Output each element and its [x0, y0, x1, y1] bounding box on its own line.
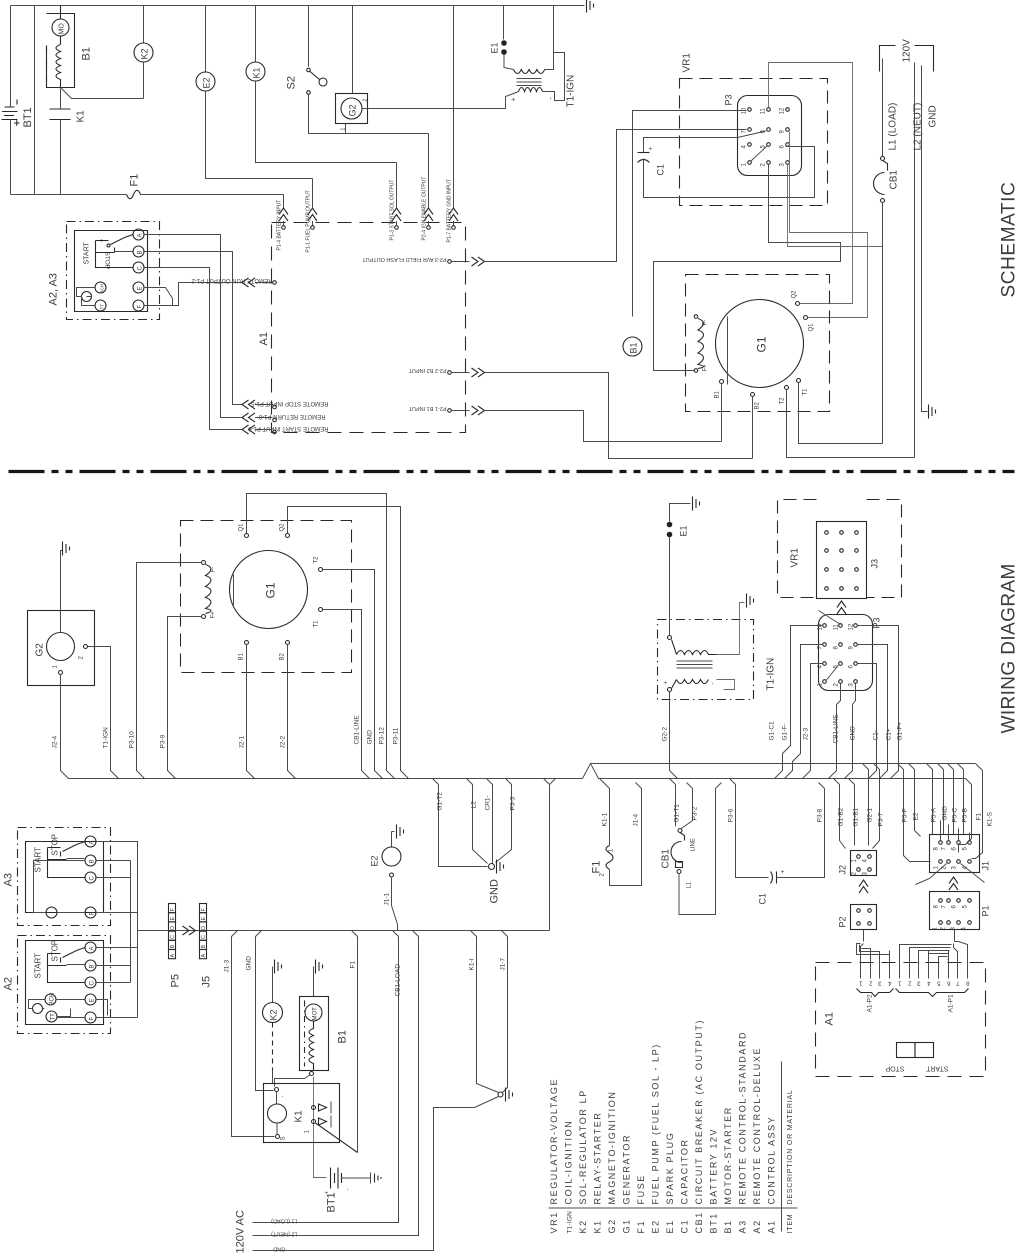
connector J2 [838, 851, 877, 876]
field coil F-/F+ (wiring) [202, 561, 217, 619]
svg-text:E: E [138, 286, 144, 290]
svg-text:LINE: LINE [691, 838, 697, 851]
svg-text:B1: B1 [715, 390, 721, 398]
svg-text:A: A [170, 954, 176, 958]
svg-text:-: - [711, 683, 717, 685]
wire F to remote run [144, 283, 242, 306]
svg-text:-: - [346, 1189, 352, 1191]
wires P2 to A1-P2 stubs [863, 930, 865, 942]
svg-text:120V AC: 120V AC [235, 1210, 247, 1253]
svg-text:A3: A3 [3, 873, 15, 886]
svg-text:K1: K1 [76, 110, 87, 123]
wire G2-2 from T1 primary [670, 692, 678, 779]
wire B1 terminal down [721, 384, 723, 442]
svg-text:GND: GND [273, 1246, 285, 1252]
collector wires A3/A2 to trunk [96, 842, 138, 1018]
magneto G2 box [336, 6, 504, 134]
svg-text:12: 12 [780, 107, 786, 114]
svg-text:A: A [138, 233, 144, 237]
voltage regulator VR1 box (dashed) [680, 79, 828, 206]
wire CB1-LINE from T1 [323, 610, 370, 779]
svg-text:G1-F+: G1-F+ [897, 722, 904, 741]
svg-text:E2: E2 [651, 1219, 661, 1233]
svg-text:C: C [90, 876, 96, 881]
svg-text:S: S [281, 1136, 287, 1140]
svg-text:B1: B1 [239, 652, 245, 660]
svg-text:P3-6: P3-6 [728, 808, 735, 822]
connector J5 [200, 904, 213, 988]
svg-text:12: 12 [849, 623, 855, 630]
motor starter B1 (wiring) [300, 960, 349, 1076]
svg-text:K1-S: K1-S [987, 811, 994, 826]
svg-text:F+: F+ [211, 611, 217, 619]
svg-text:P2: P2 [838, 916, 848, 927]
svg-text:J1-1: J1-1 [384, 892, 391, 905]
svg-text:K1: K1 [294, 1110, 305, 1123]
svg-text:F-: F- [211, 567, 217, 573]
svg-text:D: D [201, 926, 207, 930]
svg-text:MAGNETO-IGNITION: MAGNETO-IGNITION [607, 1091, 617, 1205]
main harness bus (left, lower) [111, 778, 583, 780]
remote control A2,A3 box (dash-dot) [67, 222, 160, 320]
svg-text:REMOTE RUN OUTPUT P1-2: REMOTE RUN OUTPUT P1-2 [191, 277, 273, 283]
svg-text:START: START [34, 953, 43, 979]
terminal Q1 (wiring) [245, 534, 249, 538]
svg-text:B1: B1 [723, 1219, 733, 1233]
svg-text:E2: E2 [202, 77, 212, 88]
svg-text:F1: F1 [976, 813, 983, 821]
wire P3-11 from Q2 [288, 507, 409, 779]
svg-text:+: + [511, 97, 518, 101]
svg-text:A: A [201, 954, 207, 958]
circuit breaker CB1 (wiring) [661, 779, 722, 915]
control assy A1 box (dashed) [272, 223, 466, 433]
svg-text:K1: K1 [252, 67, 262, 78]
ignition coil T1-IGN box (wiring, dash-dot) [658, 594, 754, 700]
svg-text:F: F [138, 305, 144, 309]
wire GND drop to K1 [256, 931, 274, 1091]
wire T1 to L1 [799, 383, 883, 444]
svg-text:J2: J2 [838, 865, 848, 875]
svg-text:T2: T2 [314, 556, 320, 564]
P1-3 start sol output arrow [392, 163, 401, 230]
svg-text:+: + [649, 147, 655, 151]
svg-text:G1-C1: G1-C1 [769, 721, 776, 741]
ground (top right of bus) [587, 0, 594, 13]
svg-text:P3-11: P3-11 [393, 727, 400, 744]
svg-text:C1-: C1- [873, 730, 880, 740]
svg-text:F-: F- [703, 320, 709, 326]
sol-regulator K2 circle [134, 6, 153, 99]
svg-text:REMOTE CONTROL-STANDARD: REMOTE CONTROL-STANDARD [738, 1031, 748, 1205]
top bus wire [11, 5, 585, 7]
svg-text:E2: E2 [370, 855, 380, 866]
arrow J1 to P1 [949, 877, 958, 890]
svg-text:P2-2 B2 INPUT: P2-2 B2 INPUT [408, 367, 447, 373]
jumper pin1-pin5 [751, 146, 767, 161]
svg-text:J3: J3 [870, 559, 880, 569]
svg-text:VR1: VR1 [790, 548, 801, 568]
svg-text:P3-2: P3-2 [692, 806, 699, 820]
terminal B1 (wiring) [245, 641, 249, 645]
relay starter K1 (wiring) [264, 1084, 358, 1153]
connector P3 (wiring) [818, 611, 882, 691]
remote start input arrow [242, 425, 276, 434]
svg-text:P5-A: P5-A [931, 807, 938, 822]
battery feed vertical [314, 1077, 327, 1178]
terminal T2 (wiring) [319, 568, 323, 572]
bus rise to upper level [583, 764, 966, 779]
svg-text:STOP: STOP [51, 834, 60, 856]
voltage regulator VR1 dashed box (wiring) [778, 500, 902, 598]
svg-text:TT: TT [51, 1013, 57, 1021]
svg-text:G2-2: G2-2 [662, 727, 669, 742]
svg-text:F+: F+ [703, 364, 709, 372]
wire CB1-LOAD drop [253, 931, 399, 1223]
svg-text:K2: K2 [578, 1219, 588, 1233]
svg-text:K2: K2 [269, 1009, 279, 1020]
svg-text:RELAY-STARTER: RELAY-STARTER [593, 1112, 603, 1205]
control assy A1 box (wiring, dashed) [816, 963, 986, 1077]
svg-text:B1: B1 [629, 342, 639, 353]
bus drops to J2 : G1-B2 [834, 779, 846, 849]
svg-text:BT1: BT1 [326, 1192, 338, 1212]
svg-text:+: + [664, 681, 670, 685]
svg-text:BT1: BT1 [709, 1212, 719, 1233]
P1-4 battery input arrow [279, 195, 288, 230]
svg-text:B: B [170, 945, 176, 949]
svg-text:B1: B1 [81, 47, 93, 60]
svg-text:L1 (LOAD): L1 (LOAD) [888, 103, 899, 151]
fuel pump E2 circle [196, 6, 313, 179]
svg-text:E1: E1 [665, 1219, 675, 1233]
section divider dashed line [9, 470, 1015, 473]
wire B1 bottom junction to K2 branch [61, 88, 144, 99]
svg-text:G1-F-: G1-F- [782, 724, 789, 741]
wires from lamp to E/F [77, 288, 96, 306]
svg-text:CB1-LOAD: CB1-LOAD [395, 964, 402, 997]
svg-text:G1-T1: G1-T1 [674, 804, 681, 823]
connector J1 [916, 821, 991, 885]
svg-text:A3: A3 [738, 1219, 748, 1233]
terminal B [133, 246, 144, 257]
pins col1 [748, 108, 752, 112]
svg-text:START: START [84, 241, 91, 264]
svg-text:2: 2 [363, 99, 369, 102]
120V AC output rows [235, 1210, 434, 1253]
svg-text:GND: GND [367, 730, 374, 745]
svg-text:C: C [201, 935, 207, 939]
svg-text:REMOTE RETURN P1-8: REMOTE RETURN P1-8 [258, 413, 325, 419]
trunk rise to bus [544, 779, 556, 931]
svg-text:CB1: CB1 [889, 170, 900, 190]
svg-text:GND: GND [928, 105, 939, 127]
bus drop P5-F [898, 764, 931, 862]
svg-text:P2-1 B1 INPUT: P2-1 B1 INPUT [408, 405, 447, 411]
svg-text:K1: K1 [593, 1219, 603, 1233]
svg-text:B: B [90, 859, 96, 863]
bus drop G1-B1 [849, 779, 855, 846]
svg-text:C1+: C1+ [886, 728, 893, 740]
svg-text:BCH: BCH [50, 993, 56, 1006]
svg-text:P3: P3 [724, 94, 734, 105]
svg-text:J5: J5 [201, 976, 213, 988]
svg-text:J2-4: J2-4 [52, 735, 59, 748]
svg-text:GND: GND [942, 806, 949, 821]
svg-text:L2: L2 [471, 801, 478, 809]
generator G1 circle [716, 300, 804, 388]
wire GND from T2 [323, 570, 383, 779]
svg-text:P3-12: P3-12 [379, 727, 386, 745]
svg-text:A1-P1: A1-P1 [948, 994, 955, 1012]
generator G1 dashed box (wiring) [181, 521, 352, 673]
svg-text:Q2: Q2 [792, 290, 798, 299]
svg-text:P3-7: P3-7 [878, 812, 885, 826]
wire E diagonal [144, 288, 173, 306]
svg-text:-: - [281, 1096, 287, 1098]
svg-text:C1: C1 [758, 893, 768, 905]
svg-text:REMOTE STOP INPUT P1-5: REMOTE STOP INPUT P1-5 [250, 400, 328, 406]
legend divider designator/description [549, 1207, 798, 1209]
svg-text:BCH: BCH [100, 284, 105, 294]
svg-text:P3-3: P3-3 [510, 796, 517, 810]
svg-text:G1-T2: G1-T2 [437, 792, 444, 811]
P3 drop J2-3 [803, 664, 823, 779]
switch S2 [307, 6, 429, 134]
svg-text:B2: B2 [755, 401, 761, 409]
terminal T1 [797, 379, 801, 383]
svg-text:GND: GND [246, 956, 253, 971]
battery BT1 (wiring) [325, 1168, 382, 1213]
svg-text:J2-3: J2-3 [803, 727, 810, 740]
svg-text:F: F [90, 912, 96, 916]
generator G1 circle (wiring) [230, 551, 308, 629]
bus drop P5-C [948, 764, 954, 835]
svg-text:10: 10 [818, 623, 824, 630]
svg-text:P5-B: P5-B [962, 808, 969, 822]
svg-text:P3-8: P3-8 [817, 808, 824, 822]
svg-text:DESCRIPTION OR MATERIAL: DESCRIPTION OR MATERIAL [787, 1089, 794, 1204]
P2-2 B2 input arrow [448, 368, 753, 459]
P3 drop GND [845, 684, 856, 779]
svg-text:P5-F: P5-F [902, 808, 909, 822]
terminal E [133, 282, 144, 293]
svg-text:STOP: STOP [51, 940, 60, 962]
field winding F-/F+ [694, 315, 708, 373]
svg-text:CB1: CB1 [661, 849, 672, 869]
svg-text:CIRCUIT BREAKER (AC OUTPUT): CIRCUIT BREAKER (AC OUTPUT) [694, 1019, 704, 1205]
wire F1 drop [352, 931, 358, 1153]
svg-text:C: C [170, 935, 176, 939]
P1-1 fuel pump output arrow [308, 179, 317, 230]
terminal T1 (wiring) [319, 608, 323, 612]
wire T2 to L2 [787, 390, 915, 458]
remote run output arrow [242, 278, 276, 287]
svg-text:G1: G1 [622, 1218, 632, 1233]
bus drop GND2 [938, 764, 944, 835]
connector P2 [838, 905, 877, 930]
svg-text:CR1-: CR1- [485, 795, 492, 810]
battery BT1 [2, 6, 20, 195]
svg-text:G2-1: G2-1 [867, 808, 874, 823]
ignition coil T1-IGN (schematic) [504, 6, 565, 109]
svg-text:MOT: MOT [313, 1007, 319, 1021]
wire J1-3 drop [232, 931, 275, 1137]
capacitor C1 (wiring) [728, 779, 825, 905]
wire P3-12 from Q1 [247, 494, 395, 779]
wire F+ to P3 pin2 [654, 165, 841, 371]
wire P3-9 to F+ [168, 617, 202, 779]
pins col2 [767, 108, 771, 112]
wire B to stop line [144, 252, 242, 405]
remote stop input arrow [242, 400, 276, 409]
start/stop buttons [885, 1043, 948, 1072]
arrow J2 to P2 [859, 880, 868, 893]
balloon B1 [623, 337, 642, 356]
svg-text:VR1: VR1 [549, 1211, 559, 1233]
svg-text:J1-7: J1-7 [500, 957, 507, 970]
svg-text:FUEL PUMP (FUEL SOL - LP): FUEL PUMP (FUEL SOL - LP) [651, 1043, 661, 1204]
svg-text:T1: T1 [803, 388, 809, 396]
svg-text:J1: J1 [981, 861, 991, 871]
sol-regulator K2 (wiring) [263, 960, 283, 1084]
svg-text:P1: P1 [981, 905, 991, 916]
connector J3 [817, 522, 880, 599]
P3 drop C1+ [858, 645, 888, 779]
svg-text:T1: T1 [314, 620, 320, 628]
spark plug E1 [501, 6, 513, 70]
svg-text:L2 (NEUT): L2 (NEUT) [271, 1231, 297, 1237]
svg-text:GND: GND [850, 726, 857, 741]
120V bracket [880, 39, 934, 72]
svg-text:B: B [90, 964, 96, 968]
svg-text:A1: A1 [258, 332, 270, 345]
svg-text:ITEM: ITEM [787, 1214, 794, 1234]
svg-text:F1: F1 [129, 174, 141, 187]
svg-text:J1-4: J1-4 [633, 813, 640, 826]
L2 (NEUT) line [914, 63, 916, 458]
wire J1-7 drop [502, 931, 508, 1093]
wire P3 pin3 to CB1 line [788, 165, 883, 247]
svg-text:REGULATOR-VOLTAGE: REGULATOR-VOLTAGE [549, 1078, 559, 1205]
bus drop K1-S [972, 764, 983, 859]
ground above G2 [61, 551, 63, 633]
svg-text:F1: F1 [591, 861, 603, 874]
svg-text:F1: F1 [636, 1220, 646, 1234]
svg-text:TT: TT [100, 304, 105, 310]
svg-text:E1: E1 [679, 525, 689, 536]
svg-text:Q1: Q1 [239, 523, 245, 532]
P2-4 ign enable output arrow [424, 134, 433, 230]
svg-text:SCHEMATIC: SCHEMATIC [999, 182, 1018, 298]
fuel pump E2 (wiring) [370, 825, 404, 931]
svg-text:G1: G1 [264, 582, 278, 598]
svg-text:REMOTE CONTROL-DELUXE: REMOTE CONTROL-DELUXE [752, 1047, 762, 1205]
L1 line below CB1 [882, 203, 884, 444]
svg-text:E2: E2 [913, 812, 920, 820]
ground at GND line end [929, 405, 936, 419]
svg-text:E: E [90, 998, 96, 1002]
svg-text:B2: B2 [280, 652, 286, 660]
svg-text:B: B [201, 945, 207, 949]
svg-text:FUSE: FUSE [636, 1174, 646, 1204]
wire J2-1 from B1 [247, 645, 255, 779]
svg-text:P2-3 AVR FIELD FLASH OUTPUT: P2-3 AVR FIELD FLASH OUTPUT [362, 256, 447, 262]
svg-text:A1: A1 [767, 1219, 777, 1233]
bus drop P5-B [958, 764, 964, 835]
svg-text:T1-IGN: T1-IGN [766, 658, 777, 691]
svg-text:CONTROL ASSY: CONTROL ASSY [767, 1116, 777, 1205]
svg-text:K2: K2 [140, 48, 150, 59]
wire L2 neutral drop [253, 931, 419, 1236]
wire Q1 to P3 pin9 [790, 132, 868, 318]
wire J2-2 from B2 [288, 645, 296, 779]
svg-text:G1: G1 [755, 336, 769, 352]
connector P1 [930, 892, 991, 931]
svg-text:L1: L1 [687, 881, 693, 888]
wire C to start line [144, 268, 242, 430]
svg-text:F: F [90, 1017, 96, 1021]
circuit breaker CB1 [874, 157, 888, 203]
wire J2-4 from G2 pin1 [61, 675, 111, 779]
P3 drop G1-C1 [775, 626, 823, 779]
P3 drop C1- [858, 664, 877, 779]
wire B1 bottom to K1 coil [275, 1075, 311, 1087]
bus drop P5-A [927, 764, 933, 835]
GND line [922, 66, 928, 412]
svg-text:A2: A2 [752, 1219, 762, 1233]
bus drop E2 [909, 764, 921, 837]
svg-text:COIL-IGNITION: COIL-IGNITION [564, 1120, 574, 1205]
remote return arrow [242, 413, 276, 422]
svg-text:START: START [34, 847, 43, 873]
GND node group [433, 779, 517, 904]
svg-text:BT1: BT1 [22, 107, 34, 127]
svg-text:Q1: Q1 [809, 323, 815, 332]
svg-text:120V: 120V [902, 39, 913, 63]
svg-text:+: + [781, 870, 787, 874]
arrow P5 to J5 [183, 926, 196, 935]
svg-text:11: 11 [834, 624, 840, 631]
svg-text:SOL-REGULATOR LP: SOL-REGULATOR LP [578, 1089, 588, 1204]
lamp circle [82, 292, 92, 302]
svg-text:GENERATOR: GENERATOR [622, 1134, 632, 1205]
relay contact K1 [50, 89, 71, 195]
arrow J3 to P3 [837, 601, 846, 614]
wire Q2 to P3 pin11 [769, 63, 853, 304]
pins col3 [786, 108, 790, 112]
svg-text:CB1-LINE: CB1-LINE [833, 714, 840, 744]
svg-text:P2-4 IGN ENABLE OUTPUT: P2-4 IGN ENABLE OUTPUT [422, 177, 428, 241]
fuse F1 [11, 190, 284, 199]
relay K1 coil circle [246, 6, 397, 163]
svg-text:J2-2: J2-2 [280, 735, 287, 748]
svg-text:C1: C1 [680, 1219, 690, 1234]
svg-text:C1: C1 [656, 164, 666, 176]
P3 drop G1-F- [785, 645, 823, 779]
A1-P1 pin stubs [896, 951, 970, 1013]
svg-text:G2: G2 [35, 643, 46, 657]
svg-text:SPARK PLUG: SPARK PLUG [665, 1132, 675, 1205]
bus drop P3-7 [873, 764, 880, 849]
svg-text:B1: B1 [337, 1030, 349, 1043]
svg-text:T1-IGN: T1-IGN [567, 1211, 574, 1234]
svg-text:A2: A2 [3, 977, 15, 990]
remote control A2 box [3, 936, 111, 1034]
svg-text:S2: S2 [286, 76, 298, 89]
svg-text:11: 11 [761, 108, 767, 115]
bus drop G2-1 [863, 764, 869, 846]
